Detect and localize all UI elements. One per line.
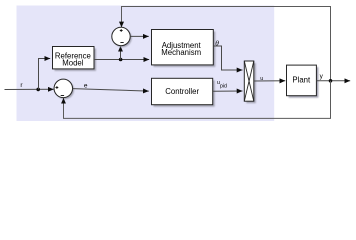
svg-text:Mechanism: Mechanism xyxy=(161,48,201,57)
summer S2 tracking error xyxy=(54,79,74,99)
wire model error to adjustment mechanism xyxy=(130,35,149,37)
svg-text:θ: θ xyxy=(215,38,219,47)
block Plant xyxy=(287,65,319,98)
block Reference Model xyxy=(53,47,97,71)
block Adjustment Mechanism xyxy=(152,30,216,67)
block multiplier product xyxy=(244,61,256,103)
summer S1 model error xyxy=(112,27,132,47)
wire u_pid to multiplier xyxy=(213,90,243,92)
wire u to plant xyxy=(254,80,285,82)
wire plant output y xyxy=(316,80,350,82)
svg-text:Plant: Plant xyxy=(292,75,311,84)
wire y feedback to summer S1 top xyxy=(122,7,331,81)
node r branch junction xyxy=(36,88,40,92)
wire error e to controller xyxy=(73,89,149,92)
wire r to reference model xyxy=(39,59,51,90)
adaptive controller region xyxy=(17,6,275,122)
wire r input xyxy=(5,88,54,90)
svg-text:u: u xyxy=(260,76,263,82)
svg-text:Model: Model xyxy=(62,58,84,67)
svg-text:Controller: Controller xyxy=(165,87,199,96)
wire y_m up to summer S1 xyxy=(120,46,122,60)
svg-text:e: e xyxy=(84,82,88,89)
wire reference model output y_m xyxy=(94,59,149,61)
node y_m junction xyxy=(119,58,123,62)
node y feedback junction xyxy=(329,79,333,83)
wire theta to multiplier xyxy=(214,46,243,70)
wire y feedback to summer S2 bottom xyxy=(64,81,331,119)
block Controller xyxy=(152,78,215,106)
